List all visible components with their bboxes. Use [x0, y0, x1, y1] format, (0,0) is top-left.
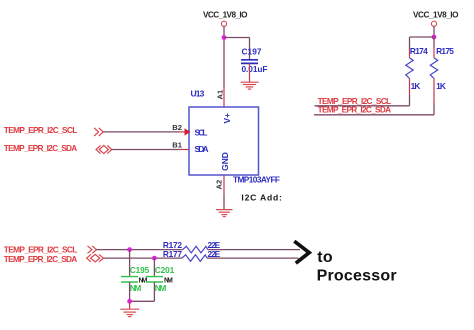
- port symbol <> (SDA left): [96, 145, 112, 153]
- svg-text:TEMP_EPR_I2C_SCL: TEMP_EPR_I2C_SCL: [4, 244, 78, 254]
- capacitor C195: [121, 265, 150, 293]
- svg-text:NM: NM: [164, 277, 173, 284]
- capacitor C197: [241, 46, 268, 74]
- wire C197 to ground: [249, 63, 251, 82]
- pin A1 stub: [223, 88, 225, 107]
- op-amp U13 body: [189, 107, 259, 175]
- wire R174 to SCL net (right): [315, 95, 410, 106]
- arrow to processor: [294, 241, 309, 263]
- svg-text:B1: B1: [172, 141, 182, 150]
- wire SCL junction down to C195: [129, 250, 131, 277]
- svg-text:A2: A2: [215, 180, 224, 190]
- svg-text:0.01uF: 0.01uF: [242, 64, 268, 74]
- svg-text:C201: C201: [155, 265, 175, 275]
- svg-text:to: to: [317, 249, 333, 266]
- svg-text:B2: B2: [172, 123, 182, 132]
- wire SDA junction down to C201: [153, 258, 155, 276]
- junction dot at caps common node: [127, 299, 132, 304]
- ground (below C197): [241, 82, 259, 89]
- svg-text:R177: R177: [163, 249, 182, 259]
- svg-text:GND: GND: [220, 152, 230, 171]
- wire C201 down and across: [130, 282, 155, 301]
- svg-text:TMP103AYFF: TMP103AYFF: [233, 174, 280, 184]
- wire VCC down to junction: [433, 27, 435, 38]
- junction dot at VCC branch: [222, 35, 227, 40]
- resistor R175: [430, 37, 454, 103]
- junction dot right: [432, 35, 437, 40]
- port symbol >> (SCL bottom): [88, 246, 97, 253]
- wire SCL to U13: [103, 131, 179, 133]
- svg-text:R175: R175: [436, 46, 454, 56]
- wire R177 to processor: [207, 257, 299, 259]
- wire R172 to processor: [208, 249, 300, 251]
- port symbol >> (SCL left): [94, 128, 103, 136]
- wire SDA to U13: [112, 149, 179, 151]
- svg-text:SDA: SDA: [195, 144, 209, 154]
- pin B2 stub with arrow: [179, 128, 190, 135]
- wire SDA bottom (to R177): [103, 257, 182, 259]
- wire SCL bottom (to R172): [97, 249, 183, 251]
- svg-text:R174: R174: [410, 46, 428, 56]
- junction dot SDA/C201: [152, 256, 157, 261]
- svg-text:TEMP_EPR_I2C_SDA: TEMP_EPR_I2C_SDA: [318, 104, 392, 114]
- wire A2 to ground: [223, 195, 225, 210]
- wire R175 to SDA net (right): [314, 103, 434, 115]
- wire to ground: [129, 301, 131, 309]
- svg-text:U13: U13: [191, 89, 205, 99]
- svg-text:I2C Add:: I2C Add:: [241, 192, 282, 202]
- resistor R177: [163, 249, 221, 261]
- wire branch to C197: [224, 38, 250, 60]
- svg-text:Processor: Processor: [317, 268, 397, 285]
- wire C195 down: [129, 282, 131, 301]
- capacitor C201: [146, 265, 175, 293]
- svg-text:C195: C195: [130, 265, 150, 275]
- power net VCC_1V8_IO (top middle): [203, 11, 248, 27]
- svg-text:A1: A1: [215, 89, 224, 99]
- svg-text:TEMP_EPR_I2C_SDA: TEMP_EPR_I2C_SDA: [4, 254, 78, 264]
- wire VCC to junction and down to U13 V+: [223, 27, 225, 89]
- svg-text:1K: 1K: [411, 81, 421, 91]
- svg-text:V+: V+: [222, 113, 232, 124]
- pin B1 stub: [179, 149, 189, 151]
- ground (below caps): [120, 309, 139, 316]
- power net VCC_1V8_IO (top right): [413, 11, 459, 27]
- junction dot SCL/C195: [127, 247, 132, 252]
- svg-text:1K: 1K: [436, 81, 446, 91]
- pin A2 stub: [223, 175, 225, 195]
- svg-text:TEMP_EPR_I2C_SCL: TEMP_EPR_I2C_SCL: [4, 125, 78, 135]
- wire branch left to R174: [410, 37, 435, 48]
- port symbol <> (SDA bottom): [87, 254, 104, 261]
- svg-text:TEMP_EPR_I2C_SDA: TEMP_EPR_I2C_SDA: [4, 143, 78, 153]
- svg-text:VCC_1V8_IO: VCC_1V8_IO: [413, 11, 459, 20]
- svg-text:SCL: SCL: [195, 127, 208, 137]
- svg-text:C197: C197: [242, 46, 262, 56]
- resistor R172: [163, 240, 221, 253]
- svg-text:NM: NM: [139, 277, 148, 284]
- ground (below U13): [216, 210, 233, 217]
- svg-text:VCC_1V8_IO: VCC_1V8_IO: [203, 11, 248, 20]
- resistor R174: [406, 46, 428, 95]
